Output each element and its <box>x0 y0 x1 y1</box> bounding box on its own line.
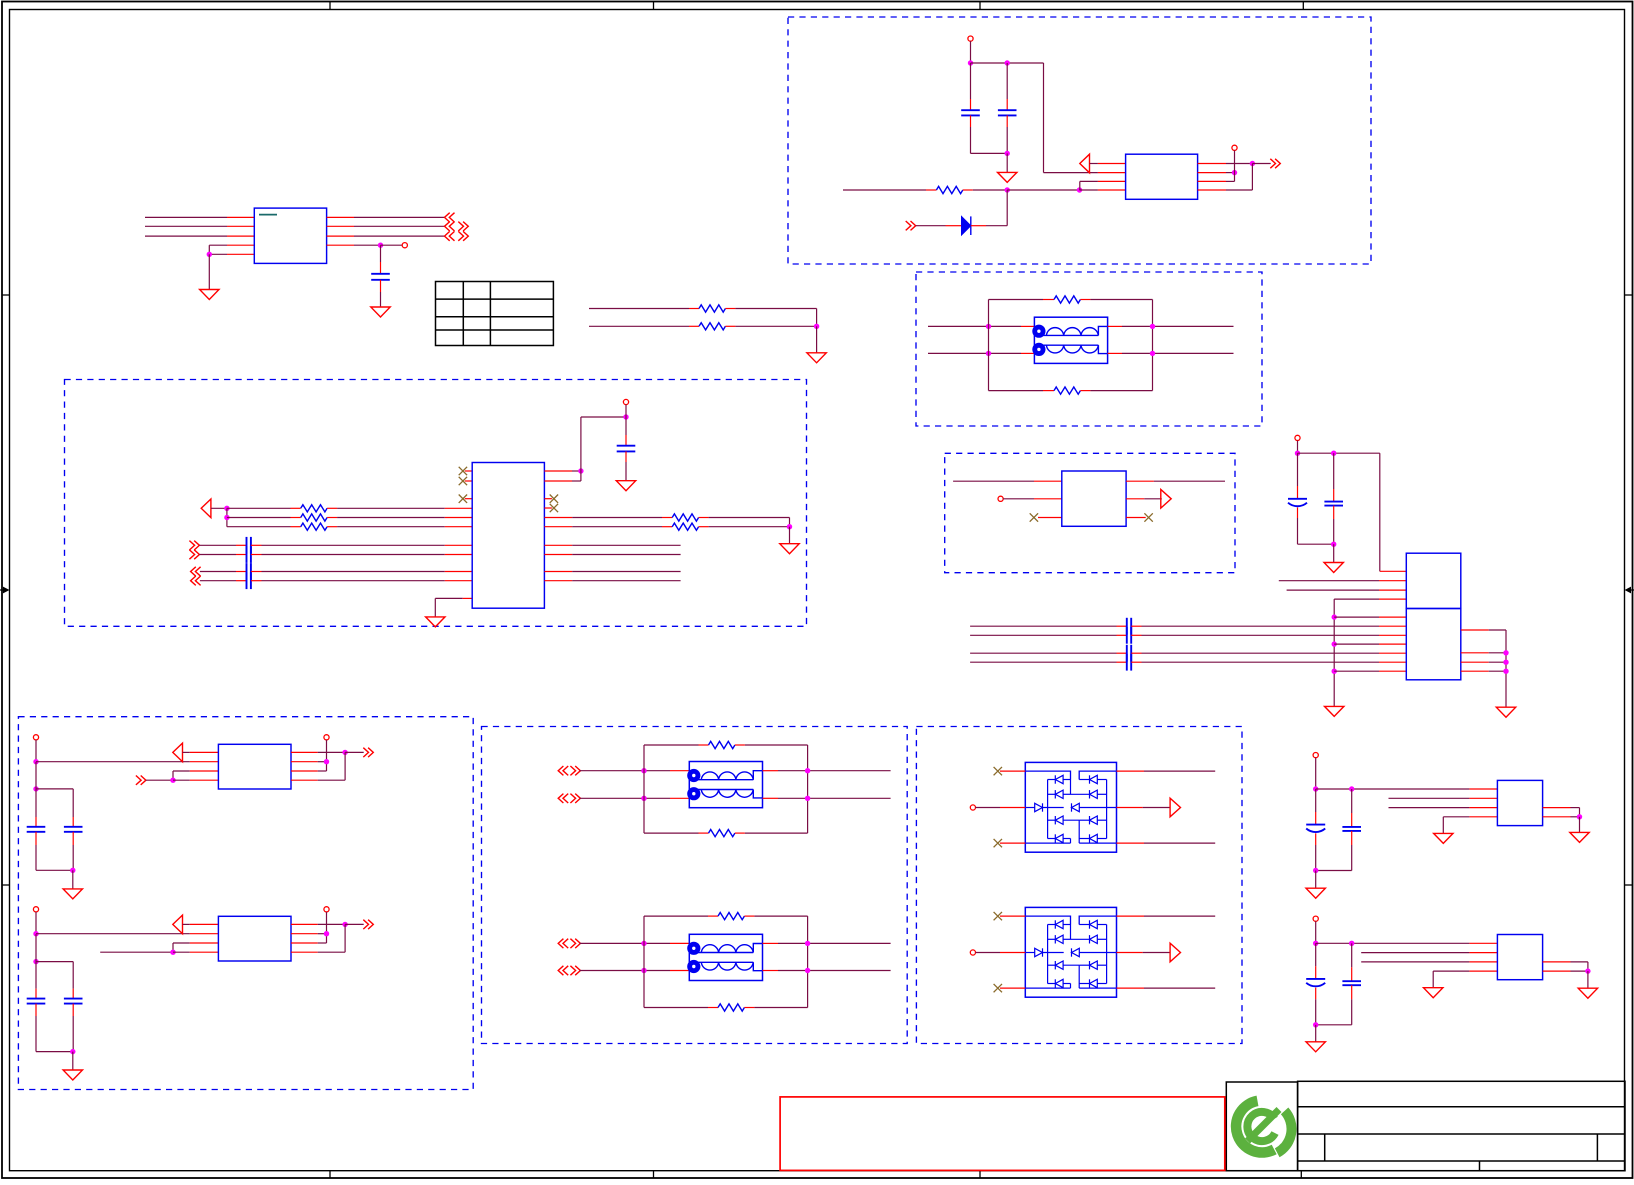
wire <box>1000 842 1025 844</box>
ic U5 <box>218 744 291 789</box>
node <box>1150 351 1155 356</box>
group box chokes <box>482 727 908 1044</box>
wire <box>1579 817 1581 833</box>
wire <box>1131 634 1406 636</box>
wire <box>36 761 218 763</box>
transformer T3 <box>687 934 762 980</box>
wire <box>327 526 472 528</box>
wire <box>763 770 891 772</box>
capacitor C1 <box>371 274 390 280</box>
port <box>136 776 146 785</box>
capacitor <box>1127 645 1131 662</box>
port <box>558 966 580 975</box>
wire <box>1131 625 1406 627</box>
node <box>1313 1022 1318 1027</box>
wire <box>1297 441 1299 454</box>
wire <box>199 554 246 556</box>
wire <box>251 554 472 556</box>
ground <box>1324 563 1343 573</box>
wire <box>644 744 709 746</box>
node <box>170 950 175 955</box>
wire <box>251 571 472 573</box>
node <box>224 506 229 511</box>
wire <box>916 225 962 227</box>
node <box>1577 814 1582 819</box>
resistor R8 <box>301 523 327 530</box>
wire <box>976 807 1026 809</box>
node <box>805 941 810 946</box>
node <box>1332 641 1337 646</box>
node <box>1331 542 1336 547</box>
wire <box>345 751 364 753</box>
node <box>1331 451 1336 456</box>
node <box>33 786 38 791</box>
wire <box>970 634 1127 636</box>
port <box>189 541 199 560</box>
wire <box>380 280 382 307</box>
tvs array D2 <box>1025 762 1116 852</box>
capacitor C11 <box>27 999 46 1004</box>
wire <box>1443 817 1497 834</box>
node <box>641 768 646 773</box>
no-connect <box>459 495 467 503</box>
wire <box>816 326 818 353</box>
wire <box>1006 115 1008 153</box>
wire <box>173 779 218 781</box>
wire <box>1315 871 1317 889</box>
resistor R6 <box>301 505 327 512</box>
wire <box>381 244 403 246</box>
no-connect <box>994 839 1002 847</box>
table <box>436 282 554 346</box>
diode D1 <box>962 216 971 235</box>
wire <box>970 652 1127 654</box>
tvs array D3 <box>1025 907 1116 997</box>
wire <box>971 190 1007 226</box>
node <box>1150 324 1155 329</box>
terminal <box>1313 916 1318 921</box>
wire <box>35 962 37 999</box>
ground <box>371 307 390 317</box>
ground <box>1306 1042 1325 1052</box>
no-connect <box>459 477 467 485</box>
capacitor <box>1127 618 1131 635</box>
node <box>1295 451 1300 456</box>
wire <box>291 770 327 772</box>
wire <box>1333 544 1335 562</box>
wire <box>1234 150 1236 181</box>
wire <box>145 235 254 237</box>
wire <box>1198 180 1235 182</box>
wire <box>326 740 328 771</box>
capacitor C9 <box>27 827 46 832</box>
terminal <box>970 805 975 810</box>
port <box>201 499 211 518</box>
node <box>1503 660 1508 665</box>
wire <box>35 1004 37 1052</box>
wire <box>1117 915 1216 917</box>
wire <box>1351 943 1353 981</box>
resistor <box>718 1004 744 1011</box>
no-connect <box>459 467 467 475</box>
wire <box>36 762 73 789</box>
wire <box>291 933 327 935</box>
wire <box>72 1004 74 1052</box>
wire <box>1316 942 1498 944</box>
node <box>33 931 38 936</box>
node <box>1332 614 1337 619</box>
wire <box>970 661 1127 663</box>
wire <box>1334 670 1406 672</box>
node <box>1503 669 1508 674</box>
resistor R2 <box>699 323 725 330</box>
wire <box>763 797 891 799</box>
wire <box>72 789 74 827</box>
wire <box>36 1051 73 1053</box>
wire <box>699 518 790 527</box>
wire <box>1315 921 1317 943</box>
wire <box>928 352 1034 354</box>
node <box>342 750 347 755</box>
capacitor C7 <box>247 572 251 589</box>
no-connect <box>994 912 1002 920</box>
port <box>363 920 373 929</box>
wire <box>971 152 1008 154</box>
resistor R1 <box>699 305 725 312</box>
wire <box>72 832 74 871</box>
wire <box>580 970 690 972</box>
port <box>363 748 373 757</box>
terminal <box>623 399 628 404</box>
wire <box>327 235 445 237</box>
wire <box>625 405 627 417</box>
terminal <box>33 735 38 740</box>
group box top-right <box>788 17 1371 264</box>
ic U4 <box>472 463 544 609</box>
wire <box>209 245 254 254</box>
no-connect <box>994 984 1002 992</box>
wire <box>199 544 246 546</box>
wire <box>1461 630 1506 707</box>
wire <box>735 832 808 834</box>
wire <box>1316 1024 1352 1026</box>
no-connect <box>1144 513 1152 521</box>
resistor <box>709 830 735 837</box>
wire <box>763 970 891 972</box>
resistor R9 <box>672 514 698 521</box>
port <box>445 222 469 231</box>
terminal <box>33 907 38 912</box>
wire <box>1003 498 1062 500</box>
ground <box>426 617 445 627</box>
wire <box>1316 870 1352 872</box>
wire <box>1126 517 1146 519</box>
wire <box>465 498 472 500</box>
wire <box>625 417 627 446</box>
node <box>207 252 212 257</box>
wire <box>1461 661 1506 663</box>
node <box>1250 161 1255 166</box>
wire <box>544 544 680 546</box>
wire <box>209 253 254 255</box>
wire <box>725 309 816 327</box>
wire <box>1315 789 1317 825</box>
wire <box>789 527 791 544</box>
node <box>805 796 810 801</box>
node <box>623 414 628 419</box>
wire <box>291 751 345 753</box>
wire <box>1044 63 1126 173</box>
wire <box>989 390 1055 392</box>
wire <box>1334 616 1406 618</box>
wire <box>643 916 645 1007</box>
wire <box>35 740 37 762</box>
wire <box>173 771 218 780</box>
terminal <box>324 907 329 912</box>
wire <box>544 470 581 472</box>
wire <box>807 745 809 833</box>
wire <box>251 580 472 582</box>
wire <box>227 526 301 528</box>
node <box>787 524 792 529</box>
terminal <box>1295 435 1300 440</box>
port <box>1270 159 1280 168</box>
wire <box>465 480 472 482</box>
wire <box>1543 970 1588 972</box>
wire <box>1287 589 1407 591</box>
node <box>1503 650 1508 655</box>
wire <box>970 63 972 110</box>
node <box>1332 669 1337 674</box>
ic U7 <box>1497 780 1542 825</box>
wire <box>208 254 210 289</box>
ground <box>1434 833 1453 843</box>
node <box>814 324 819 329</box>
capacitor <box>1342 827 1361 831</box>
wire <box>544 507 552 509</box>
port <box>1170 943 1180 962</box>
wire <box>1315 943 1317 979</box>
wire <box>644 1007 718 1009</box>
connector J1 <box>1406 553 1461 680</box>
wire <box>35 789 37 827</box>
terminal <box>998 496 1003 501</box>
wire <box>843 189 936 191</box>
wire <box>465 470 472 472</box>
node <box>1005 151 1010 156</box>
capacitor C4 <box>247 537 251 554</box>
wire <box>1333 453 1335 501</box>
node <box>1313 868 1318 873</box>
no-connect <box>994 767 1002 775</box>
node <box>1585 968 1590 973</box>
terminal <box>402 243 407 248</box>
resistor <box>718 913 744 920</box>
capacitor <box>1306 825 1325 832</box>
title block <box>1226 1081 1625 1170</box>
wire <box>544 580 680 582</box>
resistor R4 <box>1054 296 1080 303</box>
wire <box>227 507 301 509</box>
ground <box>1578 988 1597 998</box>
wire <box>226 508 228 526</box>
wire <box>1587 971 1589 988</box>
wire <box>380 245 382 274</box>
node <box>324 931 329 936</box>
port <box>558 939 580 948</box>
wire <box>725 325 816 327</box>
wire <box>1117 807 1171 809</box>
wire <box>1117 952 1171 954</box>
wire <box>1080 189 1126 191</box>
wire <box>326 912 328 943</box>
wire <box>345 923 364 925</box>
wire <box>744 1007 807 1009</box>
node <box>170 778 175 783</box>
wire <box>1543 808 1580 817</box>
wire <box>589 308 699 310</box>
capacitor C6 <box>247 563 251 580</box>
wire <box>35 912 37 934</box>
wire <box>963 189 1007 191</box>
wire <box>1038 517 1062 519</box>
wire <box>544 526 672 528</box>
wire <box>989 299 1055 301</box>
node <box>968 60 973 65</box>
wire <box>1000 770 1025 772</box>
no-connect <box>550 495 558 503</box>
wire <box>644 832 709 834</box>
capacitor C13 <box>1288 499 1307 506</box>
capacitor <box>1306 979 1325 986</box>
transformer T2 <box>687 762 762 808</box>
wire <box>580 797 690 799</box>
resistor R7 <box>301 514 327 521</box>
node <box>1349 786 1354 791</box>
wire <box>1298 452 1380 454</box>
wire <box>1543 816 1580 818</box>
node <box>33 959 38 964</box>
wire <box>1006 63 1008 110</box>
terminal <box>1313 753 1318 758</box>
wire <box>1007 189 1079 191</box>
wire <box>1334 643 1406 645</box>
wire <box>1117 770 1216 772</box>
node <box>33 759 38 764</box>
wire <box>1000 987 1025 989</box>
wire <box>1351 985 1353 1025</box>
wire <box>72 1052 74 1070</box>
ic U6 <box>218 916 291 961</box>
wire <box>1117 842 1216 844</box>
wire <box>1461 670 1506 672</box>
wire <box>1006 153 1008 172</box>
port <box>906 221 916 230</box>
wire <box>1152 300 1154 391</box>
wire <box>173 943 218 952</box>
wire <box>327 507 472 509</box>
wire <box>988 300 990 391</box>
no-connect <box>1030 513 1038 521</box>
ground <box>1325 706 1344 716</box>
group box small-ic <box>945 453 1235 572</box>
wire <box>1297 453 1299 499</box>
ground <box>1496 707 1515 717</box>
wire <box>544 498 552 500</box>
wire <box>1000 915 1025 917</box>
ground <box>200 290 219 300</box>
wire <box>36 933 218 935</box>
wire <box>953 480 1062 482</box>
wire <box>435 598 472 617</box>
ground <box>1570 832 1589 842</box>
wire <box>183 923 219 925</box>
node <box>641 796 646 801</box>
capacitor <box>1127 627 1131 644</box>
terminal <box>968 36 973 41</box>
node <box>342 922 347 927</box>
group box tvs <box>916 727 1242 1044</box>
node <box>1313 786 1318 791</box>
wire <box>544 571 680 573</box>
capacitor C2 <box>961 110 980 115</box>
wire <box>1433 971 1497 988</box>
node <box>805 768 810 773</box>
wire <box>327 244 381 246</box>
wire <box>1108 325 1234 327</box>
wire <box>1080 181 1126 190</box>
capacitor C5 <box>247 546 251 563</box>
wire <box>72 870 74 889</box>
wire <box>227 517 301 519</box>
wire <box>544 554 680 556</box>
wire <box>1361 952 1497 954</box>
ground <box>1306 888 1325 898</box>
node <box>324 759 329 764</box>
capacitor C14 <box>1324 502 1343 506</box>
wire <box>1080 390 1152 392</box>
wire <box>173 951 218 953</box>
wire <box>1126 480 1225 482</box>
node <box>1005 187 1010 192</box>
port <box>445 231 469 240</box>
resistor <box>709 741 735 748</box>
wire <box>580 770 690 772</box>
wire <box>1351 789 1353 827</box>
resistor R10 <box>672 523 698 530</box>
right centre arrow <box>1625 587 1634 594</box>
wire <box>1131 661 1406 663</box>
wire <box>1316 788 1498 790</box>
wire <box>1117 987 1216 989</box>
port <box>558 794 580 803</box>
wire <box>1297 508 1299 545</box>
terminal <box>324 735 329 740</box>
node <box>1232 170 1237 175</box>
capacitor C3 <box>998 110 1017 115</box>
wire <box>735 744 808 746</box>
wire <box>183 751 219 753</box>
wire <box>72 962 74 999</box>
ground <box>1424 988 1443 998</box>
ground <box>63 1070 82 1080</box>
revision box <box>780 1097 1225 1171</box>
ground <box>807 353 826 363</box>
wire <box>35 832 37 871</box>
node <box>1077 187 1082 192</box>
wire <box>211 507 227 509</box>
wire <box>291 752 345 780</box>
